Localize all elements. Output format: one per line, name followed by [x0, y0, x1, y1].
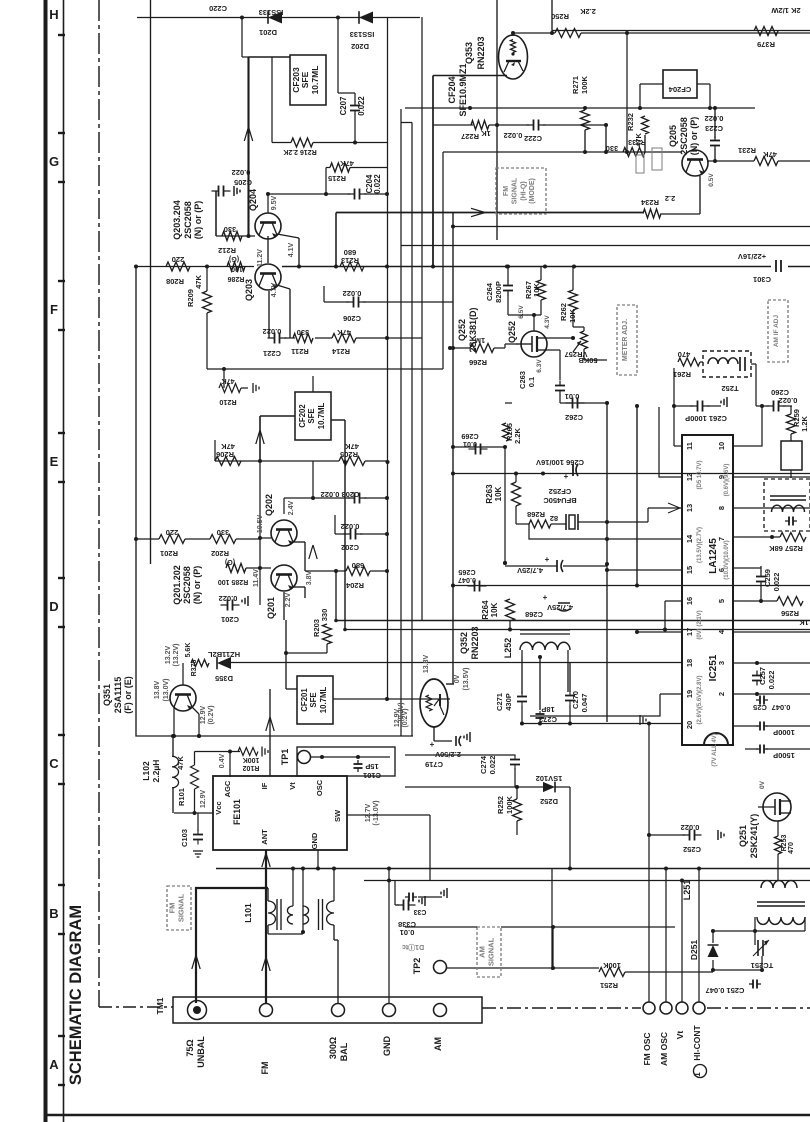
svg-text:(D5 10.7V): (D5 10.7V) — [697, 460, 703, 489]
transistor Q203 — [244, 242, 295, 301]
wire q252 source — [512, 401, 609, 405]
resistor R252 — [496, 787, 522, 835]
svg-text:C338: C338 — [398, 920, 416, 929]
svg-text:17: 17 — [685, 628, 694, 636]
svg-text:10.7ML: 10.7ML — [317, 403, 326, 430]
svg-text:H: H — [49, 7, 58, 22]
inductor L101 — [243, 899, 334, 930]
wire q351 legs — [172, 707, 201, 738]
svg-text:R210: R210 — [219, 398, 236, 407]
svg-text:R227: R227 — [461, 132, 479, 141]
transistor Q251 fet — [758, 780, 791, 821]
svg-text:430P: 430P — [504, 693, 513, 711]
svg-text:+: + — [543, 593, 548, 602]
svg-text:0.01: 0.01 — [400, 928, 415, 937]
ic IC251 body — [682, 435, 733, 745]
transistor Q205 — [682, 150, 715, 187]
svg-text:FM: FM — [260, 1062, 270, 1075]
svg-text:(F) or (E): (F) or (E) — [123, 676, 133, 714]
svg-text:ISS133: ISS133 — [259, 8, 284, 17]
svg-text:METER ADJ.: METER ADJ. — [622, 319, 629, 361]
terminal FM — [260, 1004, 273, 1075]
svg-text:+: + — [545, 555, 550, 564]
svg-text:FE101: FE101 — [232, 799, 242, 825]
svg-text:Q201: Q201 — [266, 597, 276, 619]
transformer T252 — [703, 351, 751, 393]
grey block q205 — [636, 148, 662, 173]
wire vertical x433 bold — [432, 76, 434, 267]
svg-text:9.5V: 9.5V — [271, 195, 278, 210]
svg-text:2SK241(Y): 2SK241(Y) — [749, 814, 759, 859]
wire q203 collector — [249, 57, 291, 236]
svg-text:470: 470 — [788, 842, 795, 854]
svg-text:C206: C206 — [343, 314, 361, 323]
wire vertical x387 — [387, 17, 389, 699]
svg-text:C257: C257 — [758, 667, 767, 685]
wire c204 — [268, 192, 389, 196]
svg-text:R262: R262 — [559, 303, 568, 321]
svg-text:0.022: 0.022 — [705, 114, 724, 123]
svg-text:4.3V: 4.3V — [544, 315, 551, 329]
resistor R267 — [524, 266, 546, 315]
test point TP1 — [280, 747, 395, 776]
svg-text:0.022: 0.022 — [343, 289, 362, 298]
wire pin11 — [674, 445, 682, 447]
wire vertical x401 — [400, 109, 402, 736]
svg-text:(2.6V)(5.6V)(2.8V): (2.6V)(5.6V)(2.8V) — [697, 675, 703, 724]
label D316 grey — [402, 943, 424, 952]
capacitor C253 — [745, 745, 810, 761]
resistor R264 — [481, 586, 515, 632]
wire r204 — [305, 569, 389, 573]
svg-text:4.7V: 4.7V — [271, 282, 278, 297]
capacitor C266 — [536, 458, 584, 481]
svg-text:L102: L102 — [141, 761, 151, 781]
svg-text:R285 100: R285 100 — [218, 578, 248, 585]
grid reference letters — [49, 0, 65, 1085]
svg-text:(G): (G) — [225, 558, 235, 565]
terminal strip TM1 box — [155, 997, 482, 1023]
svg-text:C261 1000P: C261 1000P — [685, 414, 727, 423]
svg-text:(13.0V): (13.0V) — [163, 679, 170, 702]
wire bus y473 — [451, 472, 810, 476]
page left black bar — [44, 0, 48, 1122]
svg-text:0.4V: 0.4V — [219, 753, 226, 768]
wire q352 — [434, 727, 452, 741]
svg-text:12.7V: 12.7V — [365, 804, 372, 823]
svg-text:C101: C101 — [363, 771, 381, 780]
svg-text:(0.2V): (0.2V) — [208, 705, 215, 724]
label q351 v2 — [200, 705, 215, 724]
filter CF202 — [295, 392, 331, 440]
svg-text:R266: R266 — [469, 358, 487, 367]
svg-text:1K: 1K — [481, 129, 491, 138]
wire pin20 — [520, 715, 682, 726]
label Q251 type — [738, 814, 759, 859]
svg-text:TP2: TP2 — [412, 958, 422, 975]
svg-text:300Ω: 300Ω — [328, 1037, 338, 1059]
svg-text:Q203: Q203 — [244, 279, 254, 301]
wire vertical x552 — [551, 868, 553, 970]
svg-text:10K: 10K — [490, 602, 499, 617]
capacitor C256 — [753, 696, 790, 713]
wire r203 — [284, 620, 327, 655]
resistor R215 — [328, 159, 354, 183]
svg-text:C33: C33 — [413, 908, 426, 915]
wire vertical x637 — [635, 404, 639, 588]
svg-text:0.022: 0.022 — [779, 396, 798, 405]
svg-text:220: 220 — [172, 255, 185, 264]
wire y787 — [405, 786, 517, 788]
wire pin6 — [740, 566, 761, 568]
resistor R234 — [640, 194, 675, 218]
svg-text:E: E — [50, 454, 59, 469]
label Q201-202 type — [172, 565, 202, 605]
resistor R214 — [331, 328, 356, 356]
diode D251 — [689, 940, 719, 961]
svg-text:R250: R250 — [551, 12, 569, 21]
wire bus y620 — [334, 569, 810, 622]
signal box AM SIGNAL — [477, 927, 501, 977]
svg-text:C103: C103 — [180, 829, 189, 847]
svg-text:C264: C264 — [485, 282, 494, 301]
svg-text:D202: D202 — [351, 42, 369, 51]
wire cf201 out — [333, 585, 450, 701]
svg-text:(HI-Q): (HI-Q) — [520, 181, 527, 200]
svg-text:C272: C272 — [539, 715, 557, 724]
svg-text:IF: IF — [260, 782, 269, 789]
signal box METER ADJ — [617, 305, 637, 375]
wire bias y369 — [207, 368, 443, 370]
wire c207 — [338, 93, 357, 145]
svg-text:CF204: CF204 — [447, 76, 457, 103]
svg-text:330: 330 — [320, 609, 329, 622]
label 12.9v vcc — [200, 790, 207, 809]
svg-text:C260: C260 — [771, 388, 789, 397]
svg-text:220: 220 — [166, 528, 179, 537]
svg-text:SIGNAL: SIGNAL — [177, 893, 186, 922]
svg-text:R205: R205 — [340, 450, 358, 459]
capacitor C272 — [536, 705, 557, 724]
svg-text:C202: C202 — [341, 543, 359, 552]
capacitor C260 — [756, 388, 797, 412]
transistor Q202 — [264, 494, 297, 546]
svg-text:13: 13 — [685, 504, 694, 512]
svg-text:Vt: Vt — [288, 782, 297, 790]
svg-text:(13.5V)(2.7V): (13.5V)(2.7V) — [697, 527, 703, 563]
svg-text:18P: 18P — [541, 705, 554, 714]
capacitor C251 — [706, 970, 762, 995]
svg-text:R268: R268 — [527, 510, 545, 519]
svg-text:C265: C265 — [458, 568, 475, 577]
svg-text:100K: 100K — [602, 961, 621, 970]
resistor R205 — [339, 442, 365, 466]
wire q201 base — [246, 566, 271, 570]
wire pin18 — [681, 662, 683, 664]
svg-text:5.6K: 5.6K — [185, 643, 192, 658]
svg-text:D355: D355 — [215, 674, 233, 683]
capacitor C222 — [433, 120, 608, 144]
terminal AM OSC — [659, 1002, 672, 1066]
svg-text:(13.2V): (13.2V) — [173, 644, 180, 667]
svg-text:R216 2.2K: R216 2.2K — [283, 148, 316, 155]
capacitor C103 — [180, 829, 203, 857]
label 12.9v cf201 — [394, 708, 409, 727]
wire y461 — [215, 440, 390, 464]
node t1 — [240, 16, 244, 20]
wire pin14 — [605, 537, 682, 541]
svg-text:10.7ML: 10.7ML — [310, 66, 320, 95]
svg-text:HI-CONT: HI-CONT — [692, 1024, 702, 1060]
svg-text:11: 11 — [685, 442, 694, 450]
filter CF201 — [297, 676, 333, 724]
svg-text:C259: C259 — [763, 569, 772, 587]
svg-text:11.2V: 11.2V — [257, 249, 264, 267]
arrow cf202 — [256, 430, 264, 444]
svg-text:10: 10 — [717, 442, 726, 450]
capacitor C207 — [339, 96, 366, 116]
transistor Q201 — [253, 515, 313, 619]
wire y539 — [134, 461, 260, 603]
wire am line — [405, 925, 675, 929]
svg-text:C719: C719 — [425, 760, 443, 769]
resistor R101 — [176, 756, 199, 806]
svg-text:R251: R251 — [600, 981, 618, 990]
wire pin6b — [733, 567, 740, 569]
svg-text:1K: 1K — [799, 618, 809, 627]
diode D202 — [350, 11, 375, 51]
svg-text:SFE: SFE — [300, 71, 310, 88]
svg-text:R256: R256 — [781, 609, 799, 618]
wire l101 — [262, 867, 338, 1004]
capacitor C263 — [518, 371, 565, 403]
resistor R210 — [219, 377, 259, 407]
arrow fm signal — [471, 208, 485, 216]
svg-text:0.1: 0.1 — [527, 377, 536, 387]
svg-text:10K: 10K — [532, 283, 541, 297]
svg-text:GND: GND — [310, 832, 319, 849]
wire pin9 — [733, 476, 810, 478]
svg-text:R102: R102 — [243, 764, 260, 771]
capacitor C269 — [451, 432, 507, 455]
wire l102 — [171, 734, 201, 815]
resistor R268 — [527, 510, 558, 528]
wire bus y226 — [401, 225, 810, 246]
svg-text:470: 470 — [678, 350, 691, 359]
wire vertical x422 — [421, 17, 423, 621]
resistor R202 — [210, 528, 236, 558]
svg-text:0.022: 0.022 — [263, 327, 282, 336]
svg-text:Q202: Q202 — [264, 494, 274, 516]
svg-text:330: 330 — [224, 225, 237, 234]
svg-text:SIGNAL: SIGNAL — [512, 177, 519, 204]
svg-text:FM: FM — [503, 186, 510, 196]
zener D355 — [208, 650, 241, 683]
svg-text:19: 19 — [685, 690, 694, 698]
wire fe101 ant — [262, 850, 270, 1003]
svg-text:SW: SW — [333, 809, 342, 822]
wire cf203 in — [242, 17, 249, 57]
capacitor C271 — [495, 692, 527, 724]
ic pin numbers — [685, 442, 726, 729]
wire osc feeds — [647, 722, 701, 1003]
svg-text:13.2V: 13.2V — [165, 646, 172, 665]
svg-text:C263: C263 — [518, 371, 527, 389]
signal box FM SIGNAL HI-Q — [496, 168, 546, 214]
wire y740 gnd — [0, 0, 1, 1]
crystal CF252 — [516, 487, 578, 530]
svg-text:AM: AM — [433, 1037, 443, 1051]
svg-text:8: 8 — [717, 506, 726, 510]
svg-text:(7V ALL 4V): (7V ALL 4V) — [712, 733, 718, 766]
svg-text:R233: R233 — [628, 138, 646, 147]
resistor R102 — [238, 747, 268, 772]
wire q203 base — [134, 236, 268, 269]
resistor R208 — [166, 255, 190, 286]
capacitor C265 — [458, 568, 487, 592]
svg-text:2.2V: 2.2V — [285, 592, 292, 607]
svg-text:R231: R231 — [738, 146, 756, 155]
svg-text:L251: L251 — [682, 880, 692, 901]
resistor R253 — [775, 821, 796, 880]
svg-text:D201: D201 — [259, 28, 277, 37]
svg-text:680: 680 — [344, 248, 357, 257]
potentiometer VR257 — [565, 327, 607, 365]
svg-text:UNBAL: UNBAL — [196, 1036, 206, 1068]
inductor L252 — [503, 630, 570, 662]
capacitor C338 — [395, 880, 425, 937]
svg-text:4.1V: 4.1V — [288, 242, 295, 257]
capacitor C204 — [348, 174, 383, 200]
wire b+ taps — [431, 212, 576, 269]
svg-text:1000P: 1000P — [773, 728, 795, 737]
svg-text:0.5V: 0.5V — [708, 173, 715, 187]
svg-text:T252: T252 — [721, 384, 738, 393]
svg-text:B: B — [49, 906, 58, 921]
svg-text:AGC: AGC — [223, 780, 232, 797]
svg-text:C268: C268 — [525, 610, 543, 619]
svg-text:10K: 10K — [494, 486, 503, 501]
svg-text:D: D — [49, 599, 58, 614]
wire pin5 — [733, 600, 740, 602]
svg-text:C222: C222 — [524, 134, 542, 143]
svg-text:TP1: TP1 — [280, 749, 290, 766]
wire vertical x136 — [136, 268, 413, 736]
svg-text:G: G — [49, 154, 59, 169]
wire pin13 — [607, 503, 682, 522]
title SCHEMATIC DIAGRAM — [67, 905, 85, 1085]
wire bus y447 — [446, 213, 505, 685]
wire fm feed — [192, 888, 262, 1003]
svg-text:R234: R234 — [640, 198, 659, 207]
svg-text:47K: 47K — [340, 159, 354, 168]
label Q252 type — [457, 307, 478, 352]
svg-text:Vcc: Vcc — [214, 801, 223, 814]
svg-text:SFE: SFE — [307, 408, 316, 423]
svg-text:47K: 47K — [763, 150, 777, 159]
wire q202 — [258, 461, 315, 571]
svg-text:R211: R211 — [291, 347, 309, 356]
svg-text:0.022: 0.022 — [504, 131, 523, 140]
svg-text:C271: C271 — [495, 693, 504, 711]
transistor Q353 — [464, 35, 528, 79]
svg-text:12.9V: 12.9V — [200, 790, 207, 809]
resistor R378 — [185, 643, 209, 677]
resistor R262 — [559, 266, 578, 327]
svg-text:+: + — [430, 740, 435, 749]
svg-text:(N) or (P): (N) or (P) — [193, 201, 203, 240]
filter CF204 — [663, 70, 697, 98]
capacitor C206 — [324, 286, 453, 323]
svg-text:Q352: Q352 — [459, 632, 469, 654]
svg-text:100: 100 — [231, 265, 243, 272]
svg-text:1SV102: 1SV102 — [536, 774, 563, 783]
wire pin19 — [530, 694, 682, 716]
capacitor C205 — [212, 168, 252, 236]
label fe101 pins — [214, 779, 342, 849]
svg-text:0.022: 0.022 — [357, 96, 366, 116]
transistor Q252 fet — [507, 321, 547, 357]
svg-text:3: 3 — [717, 661, 726, 665]
svg-text:C201: C201 — [221, 615, 239, 624]
wire bus y585 — [451, 584, 810, 588]
svg-text:Vt: Vt — [675, 1031, 685, 1040]
svg-text:6.5V: 6.5V — [518, 305, 525, 319]
wire cf202 in — [260, 416, 295, 460]
resistor R251 — [599, 961, 715, 990]
capacitor C202 — [335, 515, 389, 552]
label q352 volts — [398, 655, 470, 722]
wire bus y212 — [336, 213, 643, 351]
capacitor C203 — [313, 490, 389, 504]
label Q203-204 type — [172, 200, 203, 240]
wire left vertical x150 — [150, 0, 152, 564]
svg-text:3.8V: 3.8V — [306, 570, 313, 585]
svg-text:2.4V: 2.4V — [288, 500, 295, 515]
wire q204 — [216, 192, 301, 269]
svg-text:1: 1 — [693, 1072, 702, 1077]
wire q353 — [433, 0, 515, 240]
svg-text:0V: 0V — [454, 674, 461, 683]
resistor R201 — [159, 528, 185, 558]
svg-text:C223: C223 — [705, 124, 723, 133]
svg-text:CF204: CF204 — [668, 85, 691, 94]
svg-text:100K: 100K — [505, 795, 514, 814]
svg-text:100K: 100K — [243, 756, 260, 763]
svg-text:R252: R252 — [496, 796, 505, 814]
wire gnd terminal — [387, 867, 391, 1004]
terminal AM — [433, 1004, 447, 1052]
inductor L102 — [141, 756, 179, 788]
resistor R285 — [218, 558, 248, 585]
label r378 volts — [165, 644, 180, 667]
svg-text:(-13.0V): (-13.0V) — [373, 800, 380, 825]
capacitor C262 — [505, 392, 585, 422]
wire cf202 top — [312, 376, 314, 392]
wire bus y868 — [216, 868, 810, 870]
svg-text:D1Ⓘtc: D1Ⓘtc — [402, 943, 424, 952]
svg-text:2: 2 — [717, 692, 726, 696]
svg-text:(13.5V): (13.5V) — [463, 668, 470, 691]
svg-text:(0.2V): (0.2V) — [398, 702, 405, 721]
wire r216 — [272, 142, 387, 144]
svg-text:AM: AM — [477, 946, 486, 958]
svg-text:0.022: 0.022 — [767, 671, 776, 690]
svg-text:RN2203: RN2203 — [470, 626, 480, 659]
svg-text:2.2K: 2.2K — [513, 427, 522, 443]
capacitor C337 — [405, 888, 447, 915]
svg-text:R232: R232 — [626, 113, 635, 131]
